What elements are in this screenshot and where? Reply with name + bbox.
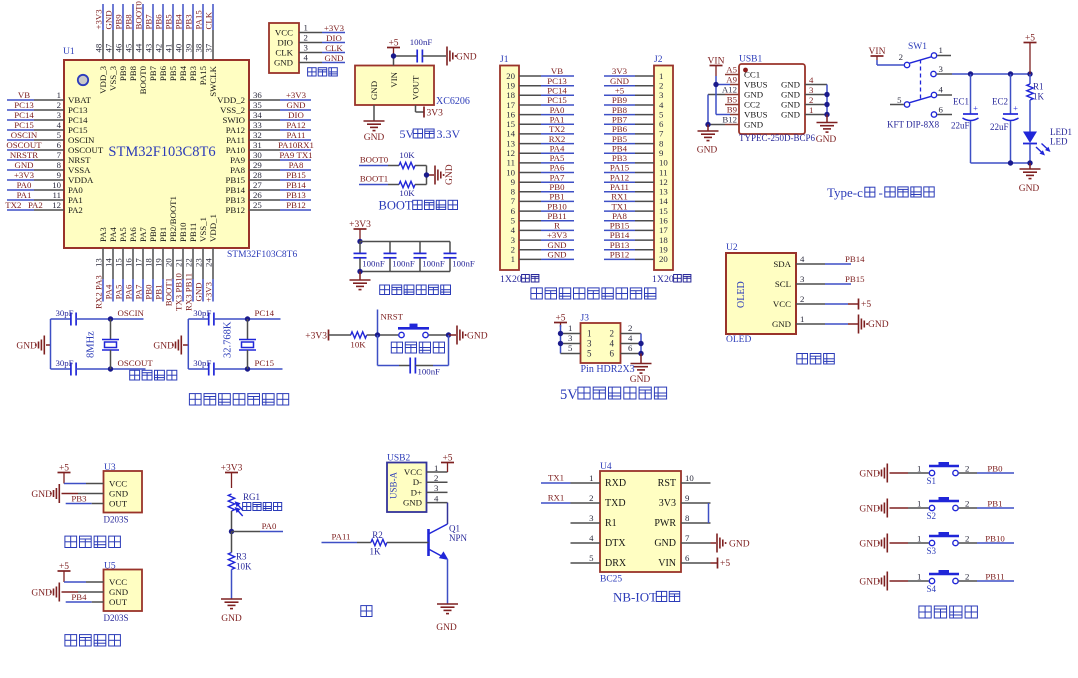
svg-text:6: 6 <box>628 343 633 353</box>
svg-text:PB6: PB6 <box>612 124 628 134</box>
J1 pin 5, net PB11, wire <box>511 211 574 226</box>
svg-text:RX2: RX2 <box>549 134 566 144</box>
svg-text:31: 31 <box>253 140 262 150</box>
net label PA11 wire <box>322 532 371 543</box>
net label PB1 wire at S2 <box>977 499 1014 509</box>
U1 pin 7 NRST left, net NRSTR, wire <box>7 150 91 165</box>
USB2 pin 2 wire <box>427 473 448 483</box>
svg-text:2: 2 <box>965 499 969 509</box>
svg-text:PB10: PB10 <box>547 201 567 211</box>
svg-text:18: 18 <box>659 235 668 245</box>
svg-text:+5: +5 <box>720 559 730 569</box>
svg-text:17: 17 <box>134 258 144 267</box>
J1 pin 1, net GND, wire <box>511 250 574 265</box>
J3 pin 6 wire <box>621 343 642 353</box>
J1 pin 6, net PB10, wire <box>511 201 574 216</box>
svg-text:GND: GND <box>654 538 676 549</box>
svg-text:GND: GND <box>729 540 750 550</box>
svg-text:PA11: PA11 <box>287 130 306 140</box>
USB1 shield pin 1 wire <box>805 105 827 115</box>
svg-text:41: 41 <box>164 44 174 53</box>
svg-text:19: 19 <box>506 81 515 91</box>
svg-text:PA10RX1: PA10RX1 <box>278 140 314 150</box>
svg-text:CLK: CLK <box>325 43 343 53</box>
svg-text:20: 20 <box>659 254 668 264</box>
svg-text:PB5: PB5 <box>612 134 628 144</box>
svg-text:TXD: TXD <box>605 498 626 509</box>
svg-text:40: 40 <box>174 43 184 52</box>
junction J3 pin6 <box>638 351 643 356</box>
svg-text:13: 13 <box>659 187 668 197</box>
svg-text:VIN: VIN <box>389 71 399 87</box>
J1 pin 20, net VB, wire <box>506 66 574 81</box>
resistor 10K on BOOT1 <box>399 181 427 198</box>
J2 pin 17, net PB15, wire <box>604 221 668 236</box>
junction filter top <box>357 239 362 244</box>
ground bar GND at S1 <box>859 464 908 483</box>
svg-text:100nF: 100nF <box>392 259 415 269</box>
svg-text:VCC: VCC <box>109 479 127 489</box>
svg-text:PA15: PA15 <box>198 65 208 85</box>
svg-text:PA12: PA12 <box>226 125 245 135</box>
svg-text:6: 6 <box>610 349 615 359</box>
svg-text:PC15: PC15 <box>68 125 88 135</box>
junction rail-EC2 <box>1008 71 1013 76</box>
svg-text:STM32F103C8T6: STM32F103C8T6 <box>227 250 297 260</box>
svg-text:VBAT: VBAT <box>68 95 92 105</box>
U1 pin 20 PB2/BOOT1 bottom, net BOOT1, wire <box>164 196 179 306</box>
svg-text:VOUT: VOUT <box>411 75 421 100</box>
svg-text:PA3: PA3 <box>98 227 108 242</box>
ground bar GND at crystal Y2 <box>153 336 188 355</box>
U4 pin 4 stub wire <box>571 533 601 543</box>
svg-text:3: 3 <box>659 90 664 100</box>
svg-text:USB1: USB1 <box>739 55 762 65</box>
svg-text:5: 5 <box>659 109 664 119</box>
svg-text:25: 25 <box>253 200 262 210</box>
svg-text:GND: GND <box>467 332 488 342</box>
switch SW1 pole 5-4 <box>890 85 952 118</box>
U1 pin 15 PA5 bottom, net PA5, wire <box>114 227 129 302</box>
pushbutton reset switch <box>398 324 449 338</box>
svg-text:5V: 5V <box>400 127 415 141</box>
svg-text:GND: GND <box>697 146 718 156</box>
U1 pin 31 PA10 right, net PA10RX1, wire <box>226 140 314 155</box>
svg-text:4: 4 <box>628 333 633 343</box>
wire J3 left bus <box>560 325 562 354</box>
svg-text:USB-A: USB-A <box>389 471 399 499</box>
svg-text:KFT DIP-8X8: KFT DIP-8X8 <box>887 120 940 130</box>
svg-text:GND: GND <box>369 81 379 100</box>
power +5 at J3 <box>554 313 567 327</box>
U1 pin 38 PA15 top, net PA15, wire <box>194 4 209 85</box>
svg-text:PB2/BOOT1: PB2/BOOT1 <box>168 196 178 242</box>
svg-text:OUT: OUT <box>109 597 128 607</box>
svg-text:CC1: CC1 <box>744 70 760 80</box>
U4 pin 8 wire <box>681 513 711 523</box>
SW1 part label KFT DIP-8X8 <box>887 120 940 130</box>
caption display screen (Chinese) <box>797 354 835 365</box>
svg-text:BOOT0: BOOT0 <box>138 65 148 94</box>
svg-text:GND: GND <box>109 489 128 499</box>
svg-text:7: 7 <box>659 129 664 139</box>
resistor 10K on BOOT0 <box>399 150 427 169</box>
svg-text:6: 6 <box>659 119 664 129</box>
svg-text:PB0: PB0 <box>987 464 1003 474</box>
svg-text:PB15: PB15 <box>225 175 245 185</box>
svg-text:+3V3: +3V3 <box>305 332 327 342</box>
svg-text:2: 2 <box>659 81 663 91</box>
svg-text:PB7: PB7 <box>144 14 154 30</box>
svg-text:PB6: PB6 <box>154 14 164 30</box>
svg-text:PB12: PB12 <box>610 250 630 260</box>
svg-text:1: 1 <box>511 254 515 264</box>
svg-text:2: 2 <box>899 52 903 62</box>
svg-text:CC2: CC2 <box>744 100 760 110</box>
U1 pin 11 PA1 left, net PA1, wire <box>7 190 83 205</box>
svg-text:12: 12 <box>52 200 61 210</box>
svg-text:PB14: PB14 <box>225 185 245 195</box>
U1 pin 30 PA9 right, net PA9 TX1, wire <box>230 150 312 165</box>
svg-text:PA9: PA9 <box>230 155 245 165</box>
caption Type-C power circuit (Chinese) <box>827 185 934 200</box>
svg-text:2: 2 <box>965 572 969 582</box>
wire USB2 GND to Q1 collector <box>447 503 449 524</box>
ground earth USB1 left <box>697 131 719 156</box>
U2 pin 3 SCL, net PB15, wire <box>775 274 865 289</box>
J1 pin 14, net TX2, wire <box>506 124 574 139</box>
U1 pin 34 SWIO right, net DIO, wire <box>223 110 311 125</box>
U1 pin 27 PB14 right, net PB14, wire <box>225 180 311 195</box>
svg-text:9: 9 <box>511 177 516 187</box>
USB1 shield pin 2 wire <box>805 95 827 105</box>
junction shield pin3 <box>824 92 829 97</box>
svg-text:A12: A12 <box>722 85 737 95</box>
svg-text:GND: GND <box>456 53 477 63</box>
svg-text:VSS_2: VSS_2 <box>220 105 245 115</box>
svg-text:PB4: PB4 <box>71 592 87 602</box>
svg-text:PA8: PA8 <box>230 165 245 175</box>
J2 pin 14, net RX1, wire <box>604 192 668 207</box>
svg-text:3: 3 <box>587 339 592 349</box>
svg-text:PA8: PA8 <box>612 211 627 221</box>
power VIN at USB1 <box>708 56 725 76</box>
svg-text:2: 2 <box>628 323 632 333</box>
svg-text:3: 3 <box>939 64 944 74</box>
svg-text:27: 27 <box>253 180 262 190</box>
junction filter bottom <box>357 269 362 274</box>
svg-text:2: 2 <box>434 473 438 483</box>
svg-text:PA8: PA8 <box>289 160 304 170</box>
junction crystal top Y2 <box>245 316 250 321</box>
svg-text:VB: VB <box>551 66 563 76</box>
junction crystal bottom Y2 <box>245 366 250 371</box>
switch SW1 pole 2-1 <box>899 45 951 68</box>
svg-text:+5: +5 <box>59 562 69 572</box>
J3 pin 5 wire <box>561 343 581 353</box>
svg-text:18: 18 <box>506 90 515 100</box>
USB2 pin 4 wire <box>427 493 448 503</box>
net label PB11 wire at S4 <box>977 572 1014 582</box>
ground bar GND at S2 <box>859 499 908 518</box>
junction J3 pin4 <box>638 341 643 346</box>
display U2 OLED body <box>726 253 796 345</box>
svg-text:1: 1 <box>587 329 592 339</box>
junction crystal top Y1 <box>108 316 113 321</box>
svg-text:1: 1 <box>939 45 943 55</box>
junction reset right <box>446 332 451 337</box>
svg-text:PC15: PC15 <box>14 120 34 130</box>
U1 pin 44 BOOT0 top, net BOOT0, wire <box>134 1 149 95</box>
net label BOOT1 wire <box>359 174 399 185</box>
U4 pin 10 wire <box>681 473 711 483</box>
svg-text:PB11: PB11 <box>547 211 566 221</box>
svg-text:RX2 PA3: RX2 PA3 <box>94 275 104 309</box>
svg-text:5: 5 <box>897 95 902 105</box>
svg-text:+5: +5 <box>59 463 69 473</box>
svg-text:GND: GND <box>221 614 242 624</box>
svg-text:1: 1 <box>917 572 921 582</box>
svg-text:B9: B9 <box>727 105 738 115</box>
download-port pin 4 GND, net GND, wire <box>274 52 345 67</box>
J1 pin 3, net +3V3, wire <box>511 230 574 245</box>
svg-text:PA5: PA5 <box>114 284 124 299</box>
wire crystal left rail Y1 <box>50 319 52 369</box>
J2 pin 13, net PA11, wire <box>604 182 668 197</box>
ground earth filter caps <box>350 280 371 290</box>
transistor Q1 NPN <box>429 524 468 561</box>
svg-text:PB4: PB4 <box>174 14 184 30</box>
junction PA0 node <box>229 529 234 534</box>
junction bottom-EC2 <box>1008 160 1013 165</box>
svg-text:PA6: PA6 <box>124 284 134 299</box>
svg-text:6: 6 <box>939 105 944 115</box>
svg-text:32.768K: 32.768K <box>223 321 234 358</box>
svg-text:OLED: OLED <box>736 281 747 308</box>
svg-text:A5: A5 <box>726 65 737 75</box>
svg-text:100nF: 100nF <box>452 259 475 269</box>
connector J1 1X20 header body <box>500 66 519 271</box>
svg-text:8: 8 <box>511 187 516 197</box>
svg-text:2: 2 <box>57 100 61 110</box>
sensor U5 designator <box>104 562 116 572</box>
svg-text:PA15: PA15 <box>610 163 630 173</box>
USB2 pin 1 wire <box>427 463 448 473</box>
capacitor 30pF top Y1 <box>51 308 111 326</box>
svg-text:+3V3: +3V3 <box>349 220 371 230</box>
U1 pin 6 OSCOUT left, net OSCOUT, wire <box>6 140 103 155</box>
wire node to R3 <box>231 532 233 553</box>
svg-text:LED: LED <box>1050 137 1068 147</box>
svg-text:16: 16 <box>124 258 134 267</box>
U1 pin 5 OSCIN left, net OSCIN, wire <box>7 130 95 145</box>
connector J3 designator <box>581 314 590 324</box>
svg-text:PC14: PC14 <box>547 86 567 96</box>
svg-text:DIO: DIO <box>277 38 293 48</box>
U1 pin 28 PB15 right, net PB15, wire <box>225 170 311 185</box>
svg-text:BOOT1: BOOT1 <box>360 174 388 184</box>
svg-text:15: 15 <box>114 258 124 267</box>
svg-text:D-: D- <box>413 477 422 487</box>
junction reset left <box>375 332 380 337</box>
svg-text:PB10: PB10 <box>985 534 1005 544</box>
svg-text:VBUS: VBUS <box>744 80 768 90</box>
svg-text:8: 8 <box>685 513 690 523</box>
svg-text:PB1: PB1 <box>158 227 168 242</box>
svg-text:18: 18 <box>144 258 154 267</box>
svg-text:3: 3 <box>304 42 309 52</box>
svg-text:+5: +5 <box>555 313 565 323</box>
svg-text:GND: GND <box>403 498 422 508</box>
svg-text:NRSTR: NRSTR <box>10 150 38 160</box>
svg-text:4: 4 <box>659 100 664 110</box>
svg-text:U2: U2 <box>726 243 738 253</box>
svg-text:SWCLK: SWCLK <box>208 65 218 96</box>
connector USB1 TYPEC body <box>739 64 816 143</box>
svg-text:VIN: VIN <box>708 56 725 66</box>
svg-text:4: 4 <box>809 75 814 85</box>
ground bar GND at U5 <box>31 583 103 602</box>
switch SW1 gang dashed link <box>920 60 922 100</box>
svg-text:1: 1 <box>917 499 921 509</box>
svg-text:PB1: PB1 <box>549 192 564 202</box>
net label NRST wire <box>378 310 404 336</box>
net label PC14 wire Y2 <box>248 308 281 319</box>
U1 pin 45 PB8 top, net PB8, wire <box>124 4 139 81</box>
svg-text:PA9 TX1: PA9 TX1 <box>279 150 312 160</box>
svg-text:PB4: PB4 <box>178 65 188 81</box>
svg-text:VSS_3: VSS_3 <box>108 65 118 91</box>
svg-text:PC14: PC14 <box>255 308 275 318</box>
J1 pin 12, net PA4, wire <box>506 143 574 158</box>
svg-text:2: 2 <box>800 294 804 304</box>
svg-text:5: 5 <box>587 349 592 359</box>
U1 pin 40 PB4 top, net PB4, wire <box>174 4 189 81</box>
J2 pin 11, net PA15, wire <box>604 163 667 178</box>
U1 pin 3 PC14 left, net PC14, wire <box>7 110 88 125</box>
svg-text:1K: 1K <box>1033 92 1045 102</box>
U1 pin 33 PA12 right, net PA12, wire <box>226 120 311 135</box>
svg-text:GND: GND <box>781 100 800 110</box>
svg-text:1: 1 <box>589 473 593 483</box>
svg-text:30pF: 30pF <box>193 358 211 368</box>
J2 pin 7, net PB6, wire <box>604 124 664 139</box>
svg-text:10: 10 <box>52 180 61 190</box>
svg-text:34: 34 <box>253 110 262 120</box>
svg-text:GND: GND <box>744 120 763 130</box>
svg-text:VCC: VCC <box>773 299 791 309</box>
wire USB1 left ground drop <box>707 125 709 132</box>
svg-text:32: 32 <box>253 130 262 140</box>
svg-text:GND: GND <box>772 319 791 329</box>
ground earth USB1 right <box>816 123 838 146</box>
svg-text:S3: S3 <box>927 546 937 556</box>
capacitor 100nF reset <box>378 335 449 377</box>
svg-text:23: 23 <box>194 258 204 267</box>
svg-text:3V3: 3V3 <box>612 66 628 76</box>
svg-text:3V3: 3V3 <box>427 109 444 119</box>
J2 pin 19, net PB13, wire <box>604 240 668 255</box>
J1 pin 16, net PA0, wire <box>506 105 574 120</box>
junction VIN node <box>391 53 396 58</box>
J3 pin 2 wire <box>621 323 642 333</box>
svg-text:7: 7 <box>685 533 690 543</box>
junction rail-R1 <box>1027 71 1032 76</box>
svg-text:3: 3 <box>434 483 439 493</box>
USB1 pin A9 VBUS wire <box>716 75 739 85</box>
svg-text:VCC: VCC <box>109 577 127 587</box>
svg-text:GND: GND <box>744 90 763 100</box>
svg-text:PA4: PA4 <box>550 143 565 153</box>
svg-text:VSS_1: VSS_1 <box>198 217 208 242</box>
svg-text:SWIO: SWIO <box>223 115 245 125</box>
svg-text:4: 4 <box>57 120 62 130</box>
USB1 pin B9 VBUS wire <box>716 105 739 115</box>
svg-text:GND: GND <box>153 342 174 352</box>
svg-text:DIO: DIO <box>326 33 342 43</box>
power +5 at USB2 <box>441 453 454 472</box>
svg-text:PB8: PB8 <box>612 105 628 115</box>
svg-text:EC1: EC1 <box>953 97 969 107</box>
svg-text:PB8: PB8 <box>128 65 138 81</box>
svg-text:2: 2 <box>304 32 308 42</box>
svg-text:BC25: BC25 <box>600 575 622 585</box>
svg-text:PC15: PC15 <box>547 95 567 105</box>
svg-text:PB10: PB10 <box>178 222 188 242</box>
svg-text:21: 21 <box>174 258 184 267</box>
svg-text:PB6: PB6 <box>158 65 168 81</box>
svg-text:PB1: PB1 <box>154 284 164 299</box>
J2 pin 2, net GND, wire <box>604 76 663 91</box>
caption light (Chinese) <box>361 606 372 617</box>
svg-text:RX1: RX1 <box>611 192 628 202</box>
capacitor EC1 22uF <box>951 74 979 163</box>
power +5 at R1 <box>1024 33 1037 74</box>
svg-text:GND: GND <box>816 135 837 145</box>
svg-text:1: 1 <box>917 534 921 544</box>
svg-text:PB15: PB15 <box>286 170 306 180</box>
connector J1 designator <box>500 55 509 65</box>
J2 pin 8, net PB5, wire <box>604 134 664 149</box>
crystal 32.768K Y2 <box>223 319 257 369</box>
svg-text:BOOT: BOOT <box>379 199 413 213</box>
svg-text:PB5: PB5 <box>168 65 178 81</box>
svg-text:GND: GND <box>859 470 880 480</box>
svg-text:VCC: VCC <box>404 467 422 477</box>
svg-text:GND: GND <box>324 53 343 63</box>
svg-text:PA2: PA2 <box>68 205 83 215</box>
J2 pin 4, net PB9, wire <box>604 95 664 110</box>
svg-text:PB13: PB13 <box>225 195 245 205</box>
svg-text:4: 4 <box>511 225 516 235</box>
svg-text:B12: B12 <box>722 115 737 125</box>
U1 pin 43 PB7 top, net PB7, wire <box>144 4 159 81</box>
svg-text:100nF: 100nF <box>362 259 385 269</box>
J1 pin 11, net PA5, wire <box>507 153 574 168</box>
svg-text:RXD: RXD <box>605 478 626 489</box>
J1 pin 17, net PC15, wire <box>506 95 574 110</box>
svg-text:Q1: Q1 <box>449 524 460 534</box>
U1 pin 42 PB6 top, net PB6, wire <box>154 4 169 81</box>
svg-text:CLK: CLK <box>204 11 214 29</box>
svg-text:OSCOUT: OSCOUT <box>118 358 154 368</box>
svg-text:OSCOUT: OSCOUT <box>6 140 42 150</box>
svg-text:PA12: PA12 <box>286 120 305 130</box>
svg-text:100nF: 100nF <box>418 367 441 377</box>
svg-text:PB14: PB14 <box>286 180 306 190</box>
net label PA0 wire <box>232 521 284 532</box>
svg-text:4: 4 <box>939 85 944 95</box>
